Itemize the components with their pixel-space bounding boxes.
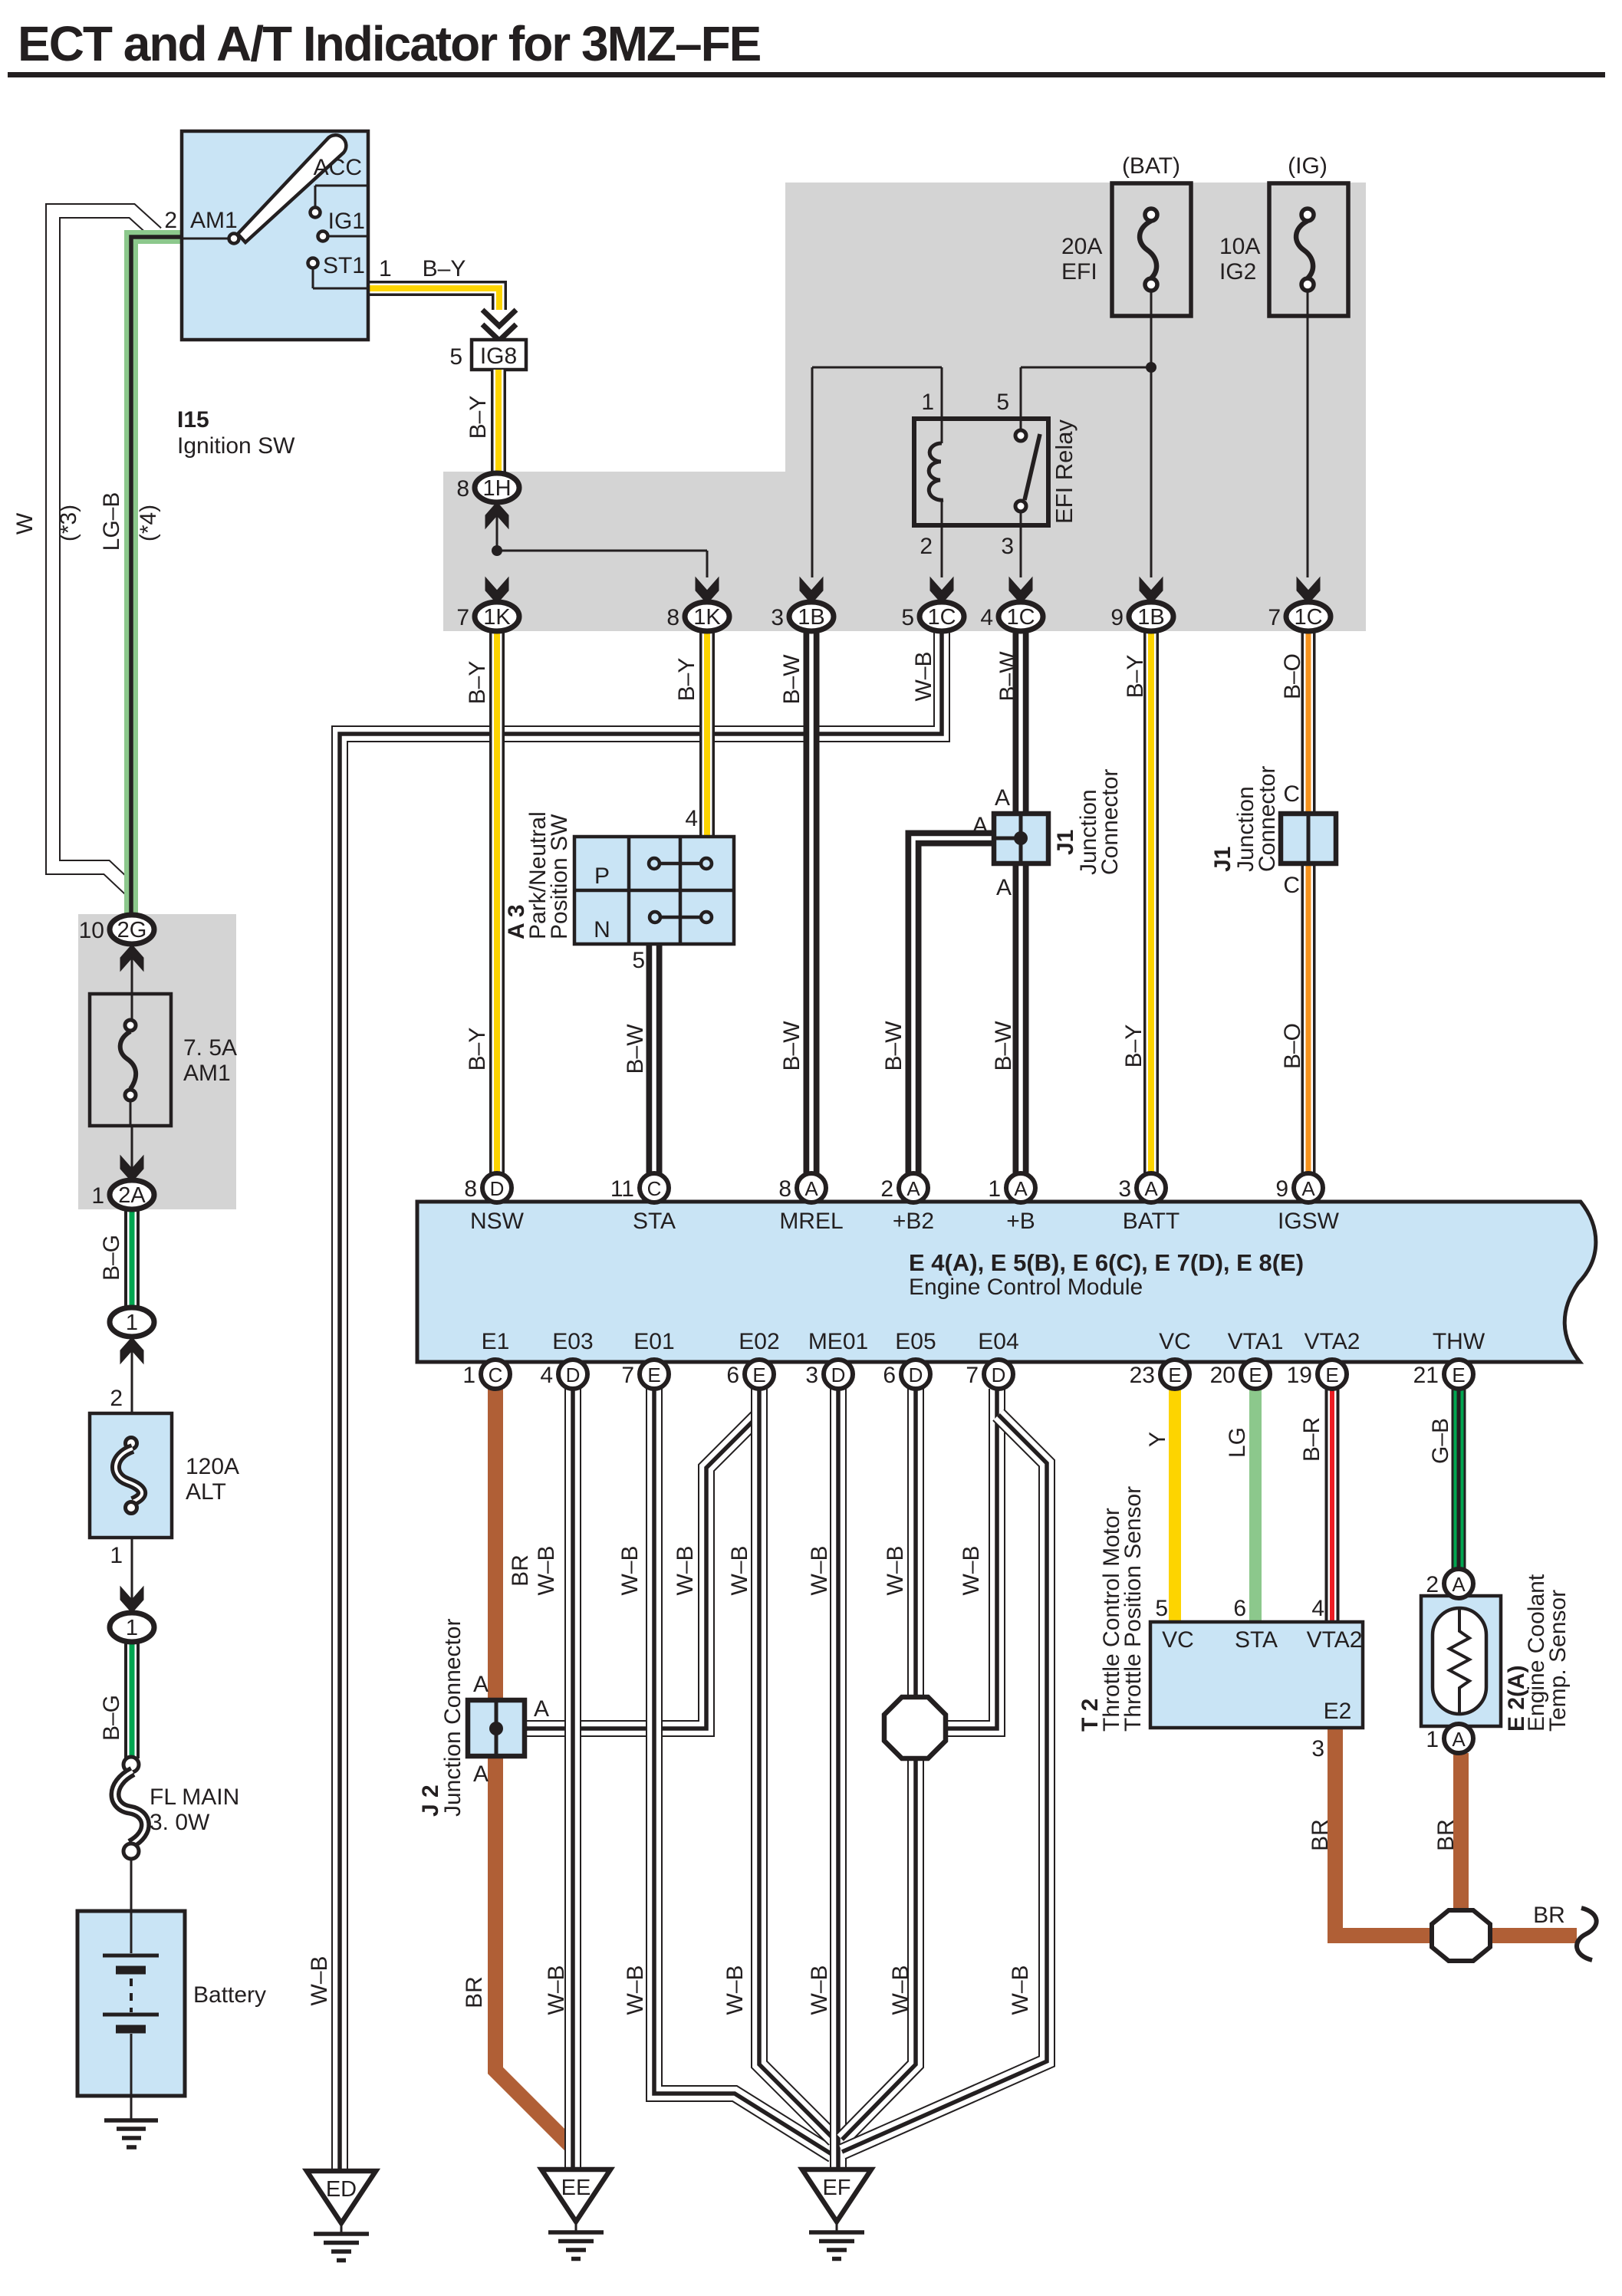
svg-text:20A: 20A [1061, 234, 1102, 259]
svg-text:E: E [1249, 1363, 1262, 1386]
svg-text:Temp. Sensor: Temp. Sensor [1545, 1590, 1571, 1732]
ECM top connector 3(A) [1137, 1173, 1166, 1202]
svg-text:8: 8 [464, 1176, 477, 1202]
wire EFI relay pin3 to 4(1C) [1020, 525, 1022, 577]
svg-text:C: C [647, 1177, 662, 1200]
ground EE [541, 2169, 610, 2222]
svg-text:C: C [1283, 781, 1300, 807]
svg-text:E1: E1 [482, 1329, 510, 1354]
svg-text:2: 2 [1426, 1572, 1439, 1597]
svg-text:LG–B: LG–B [99, 492, 124, 551]
svg-text:3: 3 [771, 605, 784, 630]
wire W-B E01 to EF ground [654, 1389, 833, 2155]
svg-text:E02: E02 [739, 1329, 779, 1354]
svg-text:ACC: ACC [314, 155, 362, 180]
wire B-G below connector 1 to FL MAIN [124, 1642, 140, 1758]
svg-text:W–B: W–B [911, 651, 936, 701]
svg-text:Position SW: Position SW [547, 814, 572, 939]
ECM bottom connector 6(D) [901, 1360, 930, 1389]
svg-text:Junction Connector: Junction Connector [440, 1619, 466, 1817]
svg-text:E05: E05 [895, 1329, 936, 1354]
svg-text:STA: STA [1235, 1627, 1278, 1653]
EFI relay coil [941, 419, 943, 443]
svg-text:A: A [1452, 1728, 1466, 1751]
coolant sensor connector 2(A) [1444, 1569, 1473, 1598]
wire FL MAIN to battery (thin) [130, 1859, 133, 1911]
svg-text:BR: BR [462, 1976, 487, 2008]
svg-text:7: 7 [621, 1363, 634, 1388]
svg-text:5: 5 [996, 390, 1009, 415]
svg-text:EE: EE [561, 2176, 591, 2200]
svg-text:B–W: B–W [881, 1021, 906, 1071]
fuse 7.5A AM1 box [90, 994, 171, 1126]
wire EFI relay pin1 up/left down to 3(1B) [941, 367, 943, 419]
coolant sensor box E2(A) [1421, 1596, 1501, 1726]
wire B-W J1 branch to +B2 [913, 838, 995, 1175]
svg-text:A: A [995, 785, 1010, 811]
svg-text:ME01: ME01 [808, 1329, 868, 1354]
svg-text:7. 5A: 7. 5A [183, 1035, 237, 1061]
battery box [77, 1911, 185, 2096]
svg-text:E: E [1452, 1363, 1465, 1386]
wire B-W 4(1C) to J1 junction [1013, 630, 1029, 815]
svg-text:4: 4 [685, 806, 698, 831]
ground ED [307, 2171, 376, 2223]
wire B-O 7(1C) to J1 junction [1301, 630, 1316, 815]
wire B-W 3(1B) to MREL [804, 630, 820, 1175]
wire from 1H junction to 1K and relay row [496, 502, 498, 551]
svg-text:11: 11 [610, 1176, 634, 1202]
EFI relay switch [1020, 419, 1022, 430]
ignition switch lever [238, 135, 346, 242]
svg-text:E: E [1168, 1363, 1181, 1386]
svg-text:B–O: B–O [1280, 653, 1305, 699]
svg-text:B–R: B–R [1299, 1417, 1324, 1462]
svg-text:(BAT): (BAT) [1122, 153, 1180, 179]
svg-text:1: 1 [110, 1543, 123, 1568]
ECM top connector 11(C) [640, 1173, 669, 1202]
svg-text:19: 19 [1287, 1363, 1312, 1388]
svg-text:W–B: W–B [888, 1965, 913, 2015]
svg-text:6: 6 [1233, 1596, 1246, 1621]
wire LG VTA1 to throttle sensor [1249, 1386, 1262, 1622]
svg-text:E 4(A), E 5(B), E 6(C), E 7(D): E 4(A), E 5(B), E 6(C), E 7(D), E 8(E) [909, 1249, 1304, 1276]
throttle sensor box T2 [1150, 1622, 1363, 1728]
svg-text:1H: 1H [482, 476, 511, 501]
svg-text:NSW: NSW [470, 1209, 525, 1234]
svg-text:1: 1 [988, 1176, 1001, 1202]
svg-text:3: 3 [805, 1363, 818, 1388]
svg-text:Ignition SW: Ignition SW [177, 433, 295, 459]
svg-text:VTA1: VTA1 [1228, 1329, 1284, 1354]
junction connector J1 (B-W) [994, 814, 1048, 863]
park/neutral position SW box [574, 837, 734, 944]
wire B-O J1 junction to IGSW [1301, 862, 1316, 1175]
fuse 7.5A AM1 element [125, 1020, 136, 1031]
svg-text:3: 3 [1311, 1736, 1324, 1761]
svg-text:EF: EF [822, 2176, 850, 2200]
svg-text:Throttle Position Sensor: Throttle Position Sensor [1120, 1486, 1146, 1732]
coolant sensor resistor [1449, 1608, 1469, 1714]
svg-text:1B: 1B [798, 605, 824, 630]
svg-text:J1: J1 [1210, 847, 1235, 872]
svg-text:A: A [972, 813, 988, 838]
svg-text:Y: Y [1145, 1432, 1170, 1447]
ECM bottom connector 23(E) [1160, 1360, 1189, 1389]
svg-text:A: A [534, 1696, 549, 1722]
svg-text:4: 4 [540, 1363, 553, 1388]
octagon splice BR [1432, 1910, 1490, 1961]
svg-text:EFI: EFI [1061, 259, 1097, 285]
connector 8(1H) [485, 502, 508, 528]
svg-text:1: 1 [126, 1311, 138, 1335]
svg-text:+B2: +B2 [893, 1209, 934, 1234]
stripe inside J2 to dot [498, 1726, 528, 1731]
svg-text:W–B: W–B [534, 1545, 559, 1595]
ignition switch box I15 [182, 131, 368, 340]
wire break curl [1577, 1908, 1597, 1960]
fuse 10A IG2 element [1301, 209, 1314, 221]
wire ALT oval to fuse (thin) [131, 1337, 133, 1439]
svg-text:B–Y: B–Y [423, 256, 466, 281]
wire BR E1 to J2 junction [488, 1389, 503, 1702]
svg-text:2: 2 [164, 208, 177, 233]
svg-text:21: 21 [1413, 1363, 1439, 1388]
park/neutral SW dividers [627, 837, 631, 944]
shaded harness area (left, AM1 fuse) [78, 914, 236, 1209]
svg-text:2: 2 [110, 1386, 123, 1411]
wire B-R VTA2 to throttle sensor [1325, 1386, 1340, 1622]
inline connector 1 (upper) [120, 1337, 143, 1363]
svg-text:3: 3 [1001, 534, 1014, 559]
svg-text:ST1: ST1 [323, 253, 365, 278]
svg-text:20: 20 [1210, 1363, 1235, 1388]
svg-text:E2: E2 [1324, 1699, 1352, 1724]
ECM bottom connector 4(D) [558, 1360, 587, 1389]
svg-text:1: 1 [462, 1363, 475, 1388]
svg-text:1: 1 [91, 1183, 104, 1209]
svg-text:5: 5 [449, 344, 462, 370]
svg-text:A: A [473, 1761, 489, 1787]
svg-text:A: A [1144, 1177, 1158, 1200]
svg-text:E: E [1325, 1363, 1338, 1386]
ECM bottom connector 19(E) [1318, 1360, 1347, 1389]
svg-text:B–W: B–W [995, 651, 1021, 702]
ECM bottom connector 3(D) [824, 1360, 853, 1389]
svg-text:W–B: W–B [807, 1545, 832, 1595]
svg-text:W–B: W–B [307, 1956, 332, 2005]
svg-text:W: W [12, 512, 38, 535]
svg-text:7: 7 [966, 1363, 979, 1388]
ECM top connector 2(A) [899, 1173, 928, 1202]
wire W-B E02 branch via J2 connector row [526, 1415, 759, 1729]
ECM top connector 9(A) [1294, 1173, 1323, 1202]
wire W-B E05 to octagon splice [907, 1389, 924, 1701]
svg-text:VC: VC [1159, 1329, 1191, 1354]
svg-text:6: 6 [726, 1363, 739, 1388]
ECM bottom connector 7(E) [640, 1360, 669, 1389]
wire G-B THW to coolant sensor [1452, 1389, 1466, 1569]
ECM top connector 1(A) [1006, 1173, 1035, 1202]
svg-text:1C: 1C [1294, 605, 1322, 630]
svg-text:4: 4 [980, 605, 993, 630]
svg-text:1C: 1C [1006, 605, 1035, 630]
wire W-B E04 branch to EF ground [842, 1415, 1047, 2152]
ground EF [802, 2169, 871, 2222]
svg-text:1B: 1B [1137, 605, 1164, 630]
wire BR J2 to EE ground [495, 1754, 571, 2146]
svg-text:IG8: IG8 [480, 344, 517, 369]
svg-text:B–Y: B–Y [1121, 1025, 1147, 1068]
wire B-W J1 junction to +B [1013, 862, 1029, 1175]
svg-text:9: 9 [1110, 605, 1124, 630]
svg-text:B–W: B–W [779, 654, 804, 705]
svg-text:D: D [831, 1363, 846, 1386]
wire W-B E04 into octagon splice [947, 1389, 997, 1729]
wire W-B E05 below octagon to EF ground [842, 1755, 916, 2140]
connector 5(1C) [930, 577, 953, 604]
wire EFI relay pin5 up and right to BAT fuse node [1020, 367, 1022, 419]
svg-text:W–B: W–B [959, 1545, 984, 1595]
svg-text:3: 3 [1118, 1176, 1131, 1202]
svg-text:I15: I15 [177, 407, 209, 433]
svg-text:10A: 10A [1219, 234, 1260, 259]
svg-text:8: 8 [666, 605, 679, 630]
svg-text:W–B: W–B [544, 1965, 569, 2015]
shaded harness area (top right) [443, 183, 1366, 631]
svg-text:10: 10 [79, 918, 104, 943]
svg-text:W–B: W–B [617, 1545, 643, 1595]
svg-text:B–Y: B–Y [1123, 655, 1148, 699]
svg-text:P: P [594, 863, 610, 889]
wire ALT to connector (thin) [131, 1538, 133, 1613]
svg-text:BR: BR [1308, 1819, 1333, 1851]
inline connector 1 (lower) [120, 1587, 143, 1613]
connector 5 IG8 [472, 340, 526, 370]
wire W-B E03 to EE ground [564, 1389, 581, 2171]
battery plates [130, 1911, 133, 1953]
svg-text:LG: LG [1225, 1427, 1250, 1458]
svg-text:E01: E01 [633, 1329, 674, 1354]
wire W-B ME01 to EF ground [830, 1389, 847, 2171]
svg-text:2A: 2A [118, 1183, 146, 1208]
svg-text:B–Y: B–Y [466, 396, 491, 439]
junction node below BAT fuse [1146, 362, 1156, 373]
svg-text:7: 7 [456, 605, 469, 630]
svg-text:E04: E04 [978, 1329, 1018, 1354]
svg-text:FL MAIN: FL MAIN [150, 1784, 239, 1810]
wire W (*3) open white wire from AM1 [53, 211, 156, 892]
svg-text:1: 1 [1426, 1727, 1439, 1752]
fusible link 120A ALT element [126, 1438, 137, 1449]
svg-text:1: 1 [379, 256, 392, 281]
svg-text:G–B: G–B [1428, 1418, 1453, 1464]
svg-text:E: E [752, 1363, 765, 1386]
svg-text:B–W: B–W [779, 1021, 804, 1071]
wire B-Y from ST1 pin 1 to IG8 [367, 288, 499, 310]
svg-text:A: A [1014, 1177, 1028, 1200]
svg-text:VTA2: VTA2 [1307, 1627, 1363, 1653]
connector 7(1K) [485, 577, 508, 604]
svg-text:VC: VC [1162, 1627, 1194, 1653]
svg-text:A: A [1452, 1573, 1466, 1596]
connector 10(2G) [120, 945, 143, 971]
wire IG fuse to 7(1C) [1307, 291, 1309, 577]
ECM bottom connector 21(E) [1444, 1360, 1473, 1389]
svg-text:8: 8 [778, 1176, 791, 1202]
svg-text:W–B: W–B [673, 1545, 698, 1595]
wire BAT fuse to 9(1B) [1150, 291, 1153, 577]
svg-text:1K: 1K [483, 605, 511, 630]
svg-text:N: N [594, 917, 610, 942]
IG1 terminal [318, 232, 328, 242]
svg-text:BR: BR [1433, 1819, 1459, 1851]
svg-text:EFI Relay: EFI Relay [1051, 419, 1077, 524]
fuse 20A EFI box [1112, 183, 1191, 316]
svg-text:AM1: AM1 [190, 208, 238, 233]
svg-text:A: A [906, 1177, 920, 1200]
battery ground [104, 2118, 158, 2123]
wire LG-B from AM1 pin 2 to 2G [131, 237, 182, 916]
svg-text:W–B: W–B [727, 1545, 752, 1595]
svg-text:D: D [566, 1363, 581, 1386]
ECM bottom connector 7(D) [984, 1360, 1013, 1389]
fuse 10A IG2 box [1269, 183, 1348, 316]
connector 1(2A) [120, 1156, 143, 1182]
ACC terminal [315, 185, 368, 187]
wire B-Y 9(1B) to BATT [1143, 630, 1159, 1175]
engine control module box [417, 1202, 1596, 1362]
svg-text:W–B: W–B [883, 1545, 908, 1595]
svg-text:Connector: Connector [1255, 766, 1280, 872]
wire B-G 2A to connector 1 [124, 1209, 140, 1308]
fusible link FL MAIN [123, 1757, 139, 1772]
svg-text:ALT: ALT [186, 1479, 226, 1505]
junction node at 1H wire [492, 545, 502, 556]
svg-text:IG2: IG2 [1219, 259, 1256, 285]
svg-text:E03: E03 [552, 1329, 593, 1354]
ECM top connector 8(D) [482, 1173, 512, 1202]
svg-text:Connector: Connector [1097, 769, 1123, 875]
junction connector J2 [468, 1700, 525, 1756]
wire W-B from 5(1C) down, left and down to ED ground [340, 630, 942, 2173]
ECM bottom connector 6(E) [745, 1360, 774, 1389]
svg-text:B–G: B–G [99, 1695, 124, 1741]
svg-text:W–B: W–B [722, 1965, 748, 2015]
junction connector J1 (B-O) [1281, 814, 1336, 863]
svg-text:B–Y: B–Y [674, 658, 699, 702]
AM1 terminal [182, 238, 229, 240]
svg-text:ECT and A/T Indicator for 3MZ–: ECT and A/T Indicator for 3MZ–FE [18, 16, 761, 71]
svg-text:B–O: B–O [1280, 1023, 1305, 1069]
svg-text:D: D [490, 1177, 505, 1200]
EFI relay box [914, 419, 1048, 525]
wire W-B E02 to EF ground [759, 1389, 834, 2140]
wire BR coolant sensor to octagon [1453, 1753, 1469, 1910]
connector 7(1C) [1297, 577, 1320, 604]
wire B-Y from IG8 to 1H [491, 370, 506, 475]
svg-text:E: E [647, 1363, 660, 1386]
svg-text:A: A [804, 1177, 818, 1200]
wire B-W park/neutral pin 5 to STA [646, 946, 663, 1175]
svg-text:J1: J1 [1053, 830, 1078, 855]
svg-text:B–W: B–W [991, 1021, 1016, 1071]
svg-text:1: 1 [921, 390, 934, 415]
svg-text:1K: 1K [693, 605, 721, 630]
svg-text:+B: +B [1006, 1209, 1035, 1234]
svg-text:23: 23 [1130, 1363, 1155, 1388]
svg-text:C: C [1283, 873, 1300, 898]
svg-text:6: 6 [883, 1363, 896, 1388]
svg-text:1C: 1C [927, 605, 956, 630]
svg-text:B–Y: B–Y [465, 661, 490, 705]
svg-text:9: 9 [1275, 1176, 1288, 1202]
svg-text:B–W: B–W [623, 1024, 648, 1074]
svg-text:Engine Control Module: Engine Control Module [909, 1275, 1143, 1300]
svg-text:A: A [996, 875, 1012, 900]
svg-text:W–B: W–B [807, 1965, 832, 2015]
svg-text:3. 0W: 3. 0W [150, 1810, 210, 1835]
wire BR throttle sensor E2 to octagon [1335, 1728, 1435, 1936]
svg-text:D: D [992, 1363, 1006, 1386]
wire 2G to AM1 fuse (thin) [131, 944, 133, 1021]
svg-text:STA: STA [633, 1209, 676, 1234]
svg-text:A: A [473, 1672, 489, 1697]
svg-text:B–Y: B–Y [465, 1028, 490, 1071]
ST1 terminal [308, 258, 318, 268]
connector 9(1B) [1140, 577, 1163, 604]
svg-text:120A: 120A [186, 1454, 239, 1479]
ECM bottom connector 20(E) [1241, 1360, 1270, 1389]
svg-text:2: 2 [920, 534, 933, 559]
svg-text:BR: BR [508, 1554, 533, 1587]
svg-text:ED: ED [326, 2177, 357, 2202]
svg-text:W–B: W–B [1008, 1965, 1033, 2015]
svg-text:A: A [1301, 1177, 1315, 1200]
wire EFI relay pin2 to 5(1C) [941, 525, 943, 577]
svg-text:BR: BR [1533, 1903, 1565, 1928]
svg-text:VTA2: VTA2 [1305, 1329, 1360, 1354]
ECM top connector 8(A) [797, 1173, 826, 1202]
svg-text:W–B: W–B [623, 1965, 648, 2015]
wire Y VC to throttle sensor [1169, 1386, 1181, 1622]
connector 4(1C) [1009, 577, 1032, 604]
coolant sensor connector 1(A) [1444, 1724, 1473, 1753]
svg-text:IGSW: IGSW [1278, 1209, 1340, 1234]
coolant sensor capsule [1433, 1608, 1486, 1714]
svg-text:(IG): (IG) [1288, 153, 1328, 179]
svg-text:(*3): (*3) [56, 505, 81, 541]
svg-text:5: 5 [901, 605, 914, 630]
connector 8(1K) [696, 577, 719, 604]
svg-text:Battery: Battery [193, 1982, 266, 2008]
title underline [8, 72, 1605, 77]
svg-text:5: 5 [1155, 1596, 1168, 1621]
octagon splice on E05 wire [884, 1697, 946, 1758]
wire B-Y 7(1K) to NSW [489, 630, 505, 1175]
fuse 20A EFI element [1145, 209, 1157, 221]
svg-text:5: 5 [632, 948, 645, 973]
svg-text:8: 8 [456, 476, 469, 502]
wire AM1 fuse to 2A (thin) [131, 1126, 133, 1180]
svg-text:BATT: BATT [1123, 1209, 1179, 1234]
svg-text:THW: THW [1433, 1329, 1485, 1354]
svg-text:4: 4 [1311, 1596, 1324, 1621]
connector 3(1B) [800, 577, 823, 604]
svg-text:(*4): (*4) [136, 505, 161, 541]
wire BR octagon to right (continues) [1490, 1928, 1577, 1943]
svg-text:AM1: AM1 [183, 1061, 231, 1086]
